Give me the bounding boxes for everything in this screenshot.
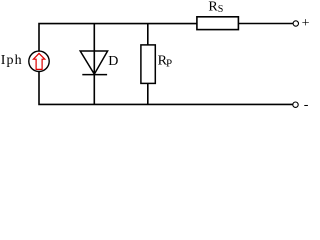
wire top (left of Rs) bbox=[39, 24, 197, 52]
diode D triangle bbox=[80, 51, 107, 74]
terminal + circle bbox=[293, 21, 298, 26]
wire Rp branch bottom bbox=[147, 83, 149, 104]
resistor Rp body bbox=[141, 45, 155, 84]
current source arrow (red) bbox=[33, 53, 44, 69]
current source Iph circle bbox=[29, 51, 49, 71]
svg-text:+: + bbox=[302, 16, 310, 31]
resistor Rs body bbox=[197, 17, 239, 30]
svg-text:-: - bbox=[304, 98, 309, 113]
diode D cathode bar bbox=[82, 74, 107, 76]
svg-text:RP: RP bbox=[158, 54, 172, 70]
svg-text:RS: RS bbox=[208, 0, 223, 15]
wire diode branch vertical bbox=[93, 24, 95, 105]
svg-text:Iph: Iph bbox=[1, 53, 23, 68]
terminal - circle bbox=[293, 102, 298, 107]
wire bottom and left lower vertical bbox=[39, 71, 293, 104]
wire top (right of Rs) bbox=[238, 23, 293, 25]
svg-text:D: D bbox=[108, 54, 118, 69]
wire Rp branch top bbox=[147, 24, 149, 45]
